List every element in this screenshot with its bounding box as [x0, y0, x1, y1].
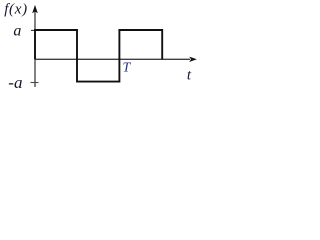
- tick -a: [31, 82, 39, 84]
- svg-text:f(x): f(x): [4, 2, 28, 18]
- x-axis: [35, 57, 197, 62]
- y-axis: [32, 5, 38, 87]
- tick a: [31, 29, 36, 31]
- svg-text:t: t: [187, 67, 192, 83]
- svg-text:-a: -a: [8, 73, 22, 92]
- square wave: [35, 30, 162, 82]
- svg-text:a: a: [13, 23, 21, 40]
- svg-text:T: T: [123, 61, 132, 76]
